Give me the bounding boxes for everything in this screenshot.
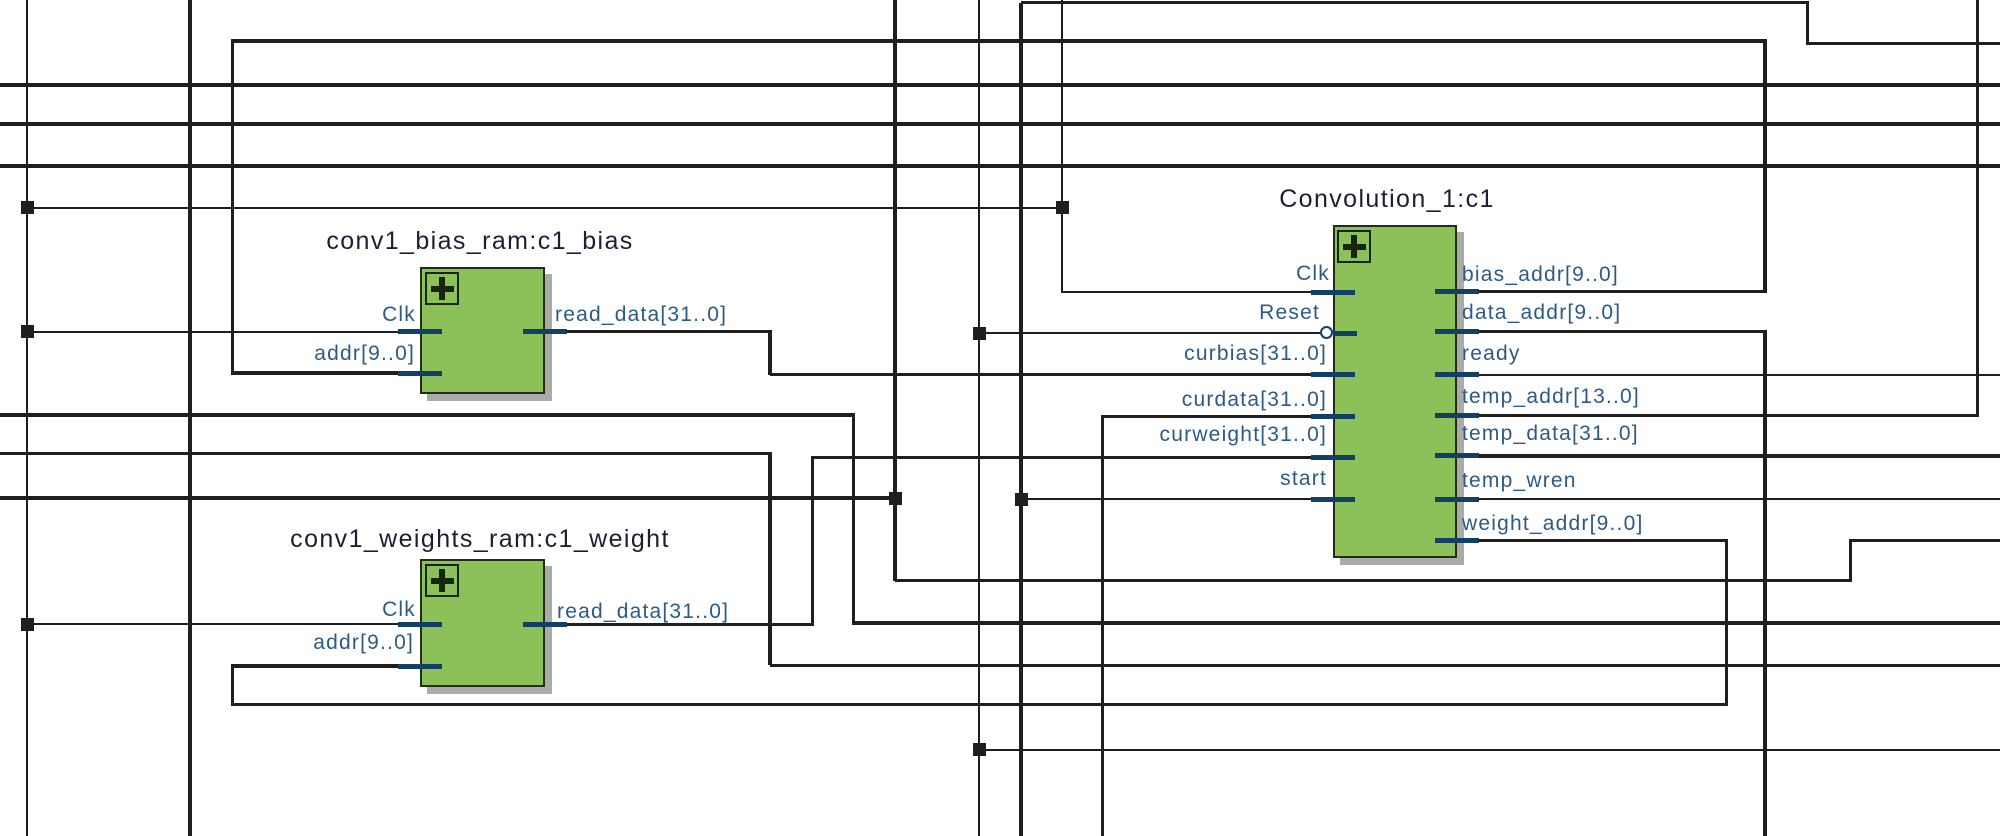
wire weight_addr return run (231, 703, 1728, 707)
pin label bias_addr (conv) (1462, 263, 1619, 287)
pin label Clk (conv) (1296, 262, 1330, 286)
block conv1_weights_ram:c1_weight (420, 559, 545, 687)
wire start into Convolution (1021, 498, 1334, 500)
wire Clk into conv1_bias_ram (27, 331, 400, 333)
pin stub start (conv) (1311, 497, 1355, 502)
pin label curbias (conv) (1184, 342, 1327, 366)
wire data_addr drop (1763, 332, 1767, 836)
wire weights read_data riser (811, 458, 815, 625)
wire line-A west run (0, 452, 772, 456)
wire start-net step (1806, 3, 1810, 44)
wire clock net horizontal run (27, 207, 1063, 209)
wire Clk into conv1_weights_ram (27, 623, 400, 625)
wire bus column E (188, 0, 192, 836)
pin stub Clk (weights) (398, 622, 442, 627)
pin label curdata (conv) (1182, 388, 1327, 412)
pin stub Clk (conv) (1311, 290, 1355, 295)
wire temp_data from Convolution (1457, 454, 2000, 458)
pin stub Clk (bias) (398, 329, 442, 334)
wire curweight into Convolution (811, 456, 1334, 460)
pin label data_addr (conv) (1462, 301, 1621, 325)
wire weights read_data output (563, 623, 814, 627)
pin stub curbias (conv) (1311, 372, 1355, 377)
junction clock to bias Clk (21, 201, 34, 214)
wire net-X east segment (1849, 539, 2000, 543)
expander icon of block Convolution_1:c1 (1337, 230, 1371, 263)
wire weights addr riser (231, 666, 235, 705)
wire start trunk column (1019, 3, 1023, 836)
pin label ready (conv) (1462, 342, 1521, 366)
expander icon of block conv1_bias_ram:c1_bias (425, 272, 459, 305)
wire bias read_data step riser (768, 332, 772, 375)
junction net-X tap (889, 492, 902, 505)
wire net-X middle run (895, 579, 1852, 583)
wire addr into conv1_bias_ram (231, 371, 400, 375)
pin stub curdata (conv) (1311, 414, 1355, 419)
wire temp_addr riser (1976, 0, 1980, 416)
junction clock tap at bias row (21, 325, 34, 338)
junction reset tap lower (973, 743, 986, 756)
wire weight_addr from Convolution (1457, 539, 1728, 543)
wire start-net right segment (1806, 42, 2000, 46)
pin stub ready (conv) (1435, 372, 1479, 377)
title conv1_weights_ram:c1_weight (290, 525, 670, 553)
wire ready from Convolution (1457, 374, 2000, 376)
pin stub Reset (conv) (1333, 331, 1357, 336)
pin label addr (weights) (313, 631, 414, 655)
wire line-A east run (770, 664, 2000, 668)
pin stub temp_data (conv) (1435, 453, 1479, 458)
wire net-X west tap (0, 496, 897, 500)
pin label temp_addr (conv) (1462, 385, 1640, 409)
wire bias_addr drop to bias ram (231, 41, 235, 373)
pin label start (conv) (1280, 467, 1327, 491)
wire thin net row D (979, 749, 2000, 751)
pin label Reset (conv) (1259, 301, 1320, 325)
wire curdata into Convolution (1101, 415, 1334, 419)
wire bias_addr net upper run (231, 39, 1767, 43)
pin stub weight_addr (conv) (1435, 538, 1479, 543)
pin label read_data (weights) (557, 600, 729, 624)
wire net-X step riser (1849, 541, 1853, 581)
pin stub data_addr (conv) (1435, 329, 1479, 334)
title Convolution_1:c1 (1279, 185, 1495, 213)
junction start tap (1015, 493, 1028, 506)
wire bias read_data output (563, 330, 772, 334)
wire clock drop to Convolution Clk (1061, 291, 1334, 293)
pin stub temp_wren (conv) (1435, 497, 1479, 502)
pin stub curweight (conv) (1311, 455, 1355, 460)
pin stub bias_addr (conv) (1435, 289, 1479, 294)
block Convolution_1:c1 (1333, 225, 1458, 558)
wire reset trunk column (978, 0, 980, 836)
pin label addr (bias) (314, 342, 415, 366)
pin label read_data (bias) (555, 303, 727, 327)
inverter bubble on Reset pin (1320, 326, 1333, 339)
expander icon of block conv1_weights_ram:c1_weight (425, 564, 459, 597)
pin label temp_data (conv) (1462, 422, 1639, 446)
wire bus row A (0, 83, 2000, 87)
title conv1_bias_ram:c1_bias (326, 227, 633, 255)
pin stub read_data (weights) (523, 622, 567, 627)
pin label weight_addr (conv) (1462, 512, 1644, 536)
wire start-net top segment (1021, 1, 1809, 5)
pin stub addr (bias) (398, 371, 442, 376)
wire bus row C (0, 164, 2000, 168)
junction clock to weights Clk (21, 618, 34, 631)
pin stub addr (weights) (398, 664, 442, 669)
pin label Clk (weights) (382, 598, 416, 622)
wire clock branch column (1061, 0, 1063, 292)
pin label Clk (bias) (382, 303, 416, 327)
wire bias_addr riser (1763, 41, 1767, 292)
wire addr into conv1_weights_ram (231, 664, 400, 668)
wire data_addr from Convolution (1457, 330, 1767, 334)
pin stub temp_addr (conv) (1435, 413, 1479, 418)
junction reset to Reset pin (973, 327, 986, 340)
wire line-A drop (768, 454, 772, 666)
block conv1_bias_ram:c1_bias (420, 267, 545, 394)
wire bus row B (0, 122, 2000, 126)
pin label curweight (conv) (1160, 423, 1327, 447)
wire weight_addr drop (1725, 541, 1729, 705)
wire clock trunk column (26, 0, 28, 836)
pin label temp_wren (conv) (1462, 469, 1577, 493)
wire net-X column (893, 0, 897, 581)
wire temp_addr from Convolution (1457, 414, 1979, 418)
pin stub read_data (bias) (523, 329, 567, 334)
wire net-P east run (852, 621, 2000, 625)
wire Reset into Convolution (979, 332, 1321, 334)
wire bias_addr from Convolution (1457, 290, 1767, 294)
wire curbias into Convolution (770, 373, 1334, 377)
wire temp_wren from Convolution (1457, 498, 2000, 500)
junction clock to Convolution branch (1056, 201, 1069, 214)
wire net-P west run (0, 413, 855, 417)
wire curdata riser (1101, 417, 1105, 836)
wire net-P drop (852, 415, 856, 623)
